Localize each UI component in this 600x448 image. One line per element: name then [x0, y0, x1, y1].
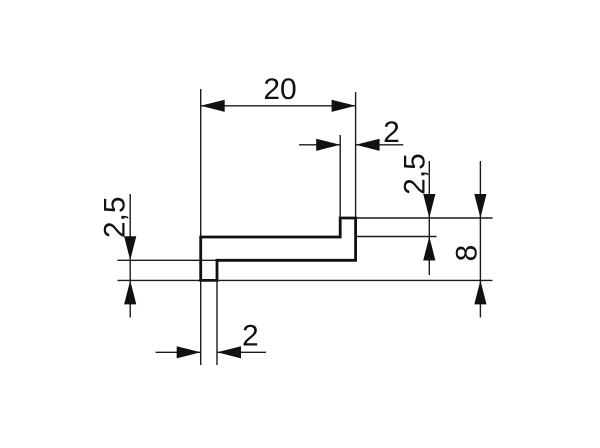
wire dimension line 20: [201, 105, 356, 107]
wire dimension line 8: [479, 161, 481, 318]
node arrow 2-top left: [316, 139, 340, 151]
node arrow 2-bottom right: [217, 346, 241, 358]
node arrow 2,5-right up: [423, 237, 435, 261]
wire extension plate top right: [357, 236, 437, 238]
svg-text:2: 2: [242, 320, 259, 353]
wire extension plate bottom left: [118, 259, 218, 261]
node arrow 20 left: [201, 100, 225, 112]
svg-text:8: 8: [450, 245, 483, 262]
node arrow 8 up: [474, 280, 486, 304]
node arrow 2-top right: [356, 139, 380, 151]
wire extension line tab left: [339, 135, 341, 217]
wire dimension tail 2-bottom left: [156, 351, 201, 353]
node arrow 20 right: [332, 100, 356, 112]
node arrow 2,5-right down: [423, 194, 435, 218]
wire extension tab top right: [357, 217, 493, 219]
wire dimension line 2,5 left: [129, 194, 131, 318]
wire dimension tail 2-top left: [299, 144, 340, 146]
wire extension left bottom: [200, 281, 202, 365]
node arrow 2,5-left up: [124, 280, 136, 304]
wire extension line right of 20 dim: [355, 92, 357, 217]
svg-text:2: 2: [383, 116, 400, 149]
svg-text:2,5: 2,5: [399, 153, 432, 195]
wire extension ltab right bottom: [216, 281, 218, 365]
wire dimension tail 2-top right: [356, 144, 404, 146]
wire extension line left of 20 dim: [200, 89, 202, 236]
wire dimension line 2,5 right: [428, 161, 430, 275]
Z-profile outline: [201, 218, 356, 280]
wire dimension tail 2-bottom right: [217, 351, 266, 353]
svg-text:20: 20: [263, 73, 296, 106]
wire extension tab bottom long: [118, 279, 493, 281]
node arrow 8 down: [474, 194, 486, 218]
node arrow 2-bottom left: [177, 346, 201, 358]
svg-text:2,5: 2,5: [98, 196, 131, 238]
node arrow 2,5-left down: [124, 236, 136, 260]
